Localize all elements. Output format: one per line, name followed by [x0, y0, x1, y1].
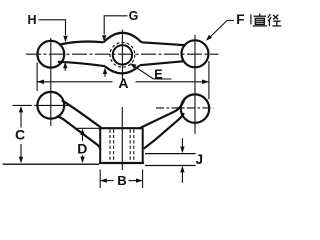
H leader line [39, 20, 66, 35]
svg-text:E: E [154, 67, 162, 81]
E leader diagonal [133, 65, 154, 79]
svg-text:F: F [236, 12, 244, 27]
right bar bottom edge (top view) [140, 61, 184, 65]
D dimension lower arrow [82, 155, 84, 158]
hidden bore dashed line 2 [113, 130, 115, 163]
hidden bore dashed line 4 [133, 130, 135, 163]
F leader arrowhead [206, 35, 212, 41]
C dimension upper arrow [19, 106, 23, 113]
B dimension line right [129, 180, 143, 182]
B right arrowhead [136, 178, 143, 182]
bottom view left lug horizontal centerline [13, 104, 69, 106]
dimension A right extension line [208, 61, 210, 99]
svg-text:A: A [118, 75, 128, 91]
barrel top edge [100, 127, 144, 129]
svg-text:C: C [15, 127, 25, 143]
separator bar after F [250, 15, 252, 25]
E leader underline [154, 78, 172, 80]
J lower arrow [181, 171, 183, 183]
right arm lower edge (bottom view) [144, 113, 184, 149]
dimension A left extension line [36, 63, 38, 92]
G opposite up arrow [103, 68, 107, 75]
left arm lower edge (bottom view) [57, 116, 101, 149]
bottom view right lug circle [181, 94, 209, 122]
right bar top edge (top view) [142, 42, 186, 45]
J upper arrow [181, 138, 183, 148]
barrel vertical centerline [121, 107, 123, 170]
C dimension lower arrow [20, 144, 22, 158]
hidden bore dashed line 1 [109, 130, 111, 163]
H opposite up arrow [63, 62, 67, 69]
right lug vertical centerline (runs through both views) [194, 35, 196, 134]
character 直 (diameter text) [253, 14, 267, 26]
base line extending left [3, 163, 100, 165]
left bar top edge (top view) [60, 42, 104, 45]
top view right eye circle [182, 40, 209, 67]
E leader arrowhead [130, 63, 137, 68]
dimension A right arrowhead [202, 80, 209, 85]
bottom view left lug circle [37, 92, 64, 119]
top view left eye circle [37, 41, 64, 68]
hub vertical centerline (top view) [121, 30, 123, 79]
character 径 (diameter text) [268, 14, 281, 26]
H leader arrowhead (down) [63, 36, 67, 43]
D extension line [77, 127, 100, 129]
B dimension line left [100, 180, 113, 182]
svg-text:J: J [196, 152, 204, 167]
G leader line [104, 16, 127, 35]
B left arrowhead [100, 178, 107, 182]
hub outer top arc [104, 33, 142, 43]
svg-text:B: B [117, 173, 127, 188]
G leader arrowhead (down) [102, 35, 106, 42]
svg-text:G: G [129, 9, 139, 23]
svg-text:D: D [77, 140, 87, 156]
hub dashed pitch circle [110, 42, 135, 67]
dimension A left arrowhead [37, 80, 44, 85]
dimension A line right segment [136, 81, 209, 83]
B right extension tick [142, 170, 144, 189]
F leader line [210, 21, 235, 38]
barrel left edge [99, 128, 101, 163]
right arm upper edge (bottom view) [140, 99, 185, 129]
left bar bottom edge (top view) [58, 62, 105, 66]
J lower reference line [145, 165, 196, 167]
barrel right edge [142, 128, 144, 163]
main horizontal centerline (top view) [26, 53, 218, 55]
D dimension upper arrow [80, 129, 84, 136]
hub inner bore circle [113, 45, 132, 64]
left lug vertical centerline (runs through both views) [50, 38, 52, 126]
B left extension tick [99, 170, 101, 189]
barrel bottom edge [99, 162, 144, 164]
svg-text:H: H [28, 13, 37, 27]
dimension A line left segment [37, 81, 112, 83]
left arm upper edge (bottom view) [62, 100, 102, 128]
hidden bore dashed line 3 [129, 130, 131, 163]
bottom view right lug horizontal centerline (dash-dot) [156, 107, 214, 109]
hub outer bottom arc [105, 65, 140, 73]
J upper reference line [145, 153, 196, 155]
